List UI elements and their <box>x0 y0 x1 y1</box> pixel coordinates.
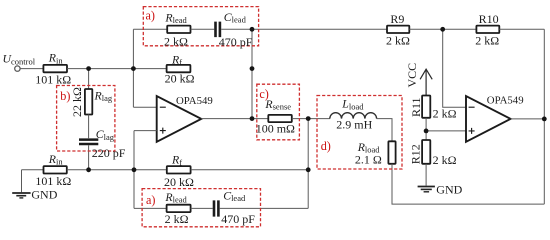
resistor Rlag body <box>85 89 92 115</box>
svg-text:2 kΩ: 2 kΩ <box>165 212 189 226</box>
capacitor Clag plates <box>79 140 98 144</box>
wire gnd to Rin2 <box>22 170 44 193</box>
resistor Rf2 body <box>167 166 191 173</box>
wire lower lead branch left <box>134 207 167 209</box>
resistor R9 body <box>387 26 409 33</box>
svg-text:2 kΩ: 2 kΩ <box>475 34 499 48</box>
power VCC arrow <box>425 70 427 96</box>
resistor Rsense body <box>268 115 292 122</box>
capacitor Clead (top) plates <box>216 22 220 37</box>
svg-text:R9: R9 <box>390 12 404 26</box>
wire opamp1 output <box>201 118 268 120</box>
resistor Rin (top) body <box>43 65 67 72</box>
wire R9 to R10 <box>409 28 476 30</box>
op-amp U1 plus pin mark <box>160 128 166 134</box>
op-amp U2 plus pin mark <box>469 128 475 134</box>
wire Clead to output leg (top) <box>221 28 252 30</box>
wire Lload to Rload <box>377 119 392 142</box>
wire terminal to Rin <box>20 68 43 70</box>
junction output top rail <box>250 27 255 32</box>
svg-text:b): b) <box>60 89 70 103</box>
input terminal circle <box>15 66 20 71</box>
svg-text:VCC: VCC <box>405 63 419 88</box>
svg-text:OPA549: OPA549 <box>176 95 213 107</box>
svg-text:101 kΩ: 101 kΩ <box>35 174 71 188</box>
svg-text:220 pF: 220 pF <box>92 146 126 160</box>
junction output Rf <box>250 66 255 71</box>
wire Clag to lower rail <box>88 145 90 170</box>
op-amp U1 OPA549 body <box>157 96 202 142</box>
inductor Lload humps <box>330 113 377 119</box>
wire Rlead2 to Clead2 <box>191 207 213 209</box>
junction opamp2 output node <box>542 117 547 122</box>
dashed box c) <box>257 84 300 140</box>
svg-text:22 kΩ: 22 kΩ <box>70 87 84 117</box>
op-amp U1 minus pin mark <box>160 106 166 108</box>
wire feedback left leg vertical <box>132 29 134 107</box>
wire to noninverting input opamp2 <box>426 130 466 132</box>
wire vertical lag leg <box>88 69 90 89</box>
wire noninverting input <box>134 130 157 132</box>
junction R11 R12 node <box>424 129 429 134</box>
wire Rin to inverting node <box>67 68 167 70</box>
wire R11 to R12 <box>425 118 427 140</box>
resistor Rlead2 body <box>167 205 191 212</box>
wire noninverting leg vertical <box>133 131 135 209</box>
svg-text:R10: R10 <box>479 12 499 26</box>
resistor Rin2 body <box>44 166 67 173</box>
junction Clag lower rail <box>86 167 91 172</box>
wire output vertical leg <box>251 29 253 118</box>
svg-text:OPA549: OPA549 <box>487 95 524 107</box>
svg-text:R12: R12 <box>409 144 423 164</box>
svg-text:2 kΩ: 2 kΩ <box>433 153 457 167</box>
svg-text:470 pF: 470 pF <box>221 212 255 226</box>
resistor R10 body <box>476 26 499 33</box>
svg-text:100 mΩ: 100 mΩ <box>256 122 295 136</box>
op-amp U2 OPA549 body <box>466 96 511 142</box>
junction sense node <box>306 116 311 121</box>
svg-text:GND: GND <box>31 187 57 201</box>
junction output node <box>250 116 255 121</box>
wire to inverting input <box>133 106 156 108</box>
resistor R11 body <box>422 96 430 118</box>
wire lead top left <box>133 28 167 30</box>
op-amp U2 minus pin mark <box>469 106 475 108</box>
wire lower rail <box>67 169 167 171</box>
ground GND1 bars <box>12 192 30 194</box>
wire Rlead to Clead (top) <box>191 28 215 30</box>
dashed box d) <box>317 96 402 170</box>
wire top rail to R9 <box>252 28 387 30</box>
dashed box b) <box>57 86 115 152</box>
resistor Rf (top) body <box>167 65 191 72</box>
svg-text:2 kΩ: 2 kΩ <box>164 34 188 48</box>
svg-text:a): a) <box>146 193 155 207</box>
svg-text:GND: GND <box>436 182 462 196</box>
wire opamp2 inverting leg <box>443 29 466 107</box>
resistor Rload body <box>388 141 395 164</box>
svg-text:2.9 mH: 2.9 mH <box>336 118 372 132</box>
svg-text:a): a) <box>146 9 155 23</box>
svg-text:2 kΩ: 2 kΩ <box>433 107 457 121</box>
svg-text:20 kΩ: 20 kΩ <box>164 175 194 189</box>
wire R12 to GND2 <box>425 164 427 186</box>
junction inverting node <box>131 66 136 71</box>
junction R9 R10 node <box>440 27 445 32</box>
dashed box a) bottom <box>142 189 260 227</box>
svg-text:R11: R11 <box>409 97 423 117</box>
wire Rf2 to sense leg <box>191 169 309 171</box>
wire Clead2 to sense leg <box>220 207 309 209</box>
wire Rlag to Clag <box>88 115 90 139</box>
resistor Rlead (top) body <box>167 26 190 33</box>
wire R10 to right edge <box>499 28 544 30</box>
svg-text:2.1 Ω: 2.1 Ω <box>355 152 382 166</box>
svg-text:d): d) <box>321 139 331 153</box>
junction sense lower rail <box>306 167 311 172</box>
junction lag node <box>86 66 91 71</box>
svg-text:101 kΩ: 101 kΩ <box>35 72 71 86</box>
wire sense node vertical <box>307 119 309 209</box>
wire Rsense to load <box>292 118 330 120</box>
wire Rload to bottom rail <box>392 164 544 204</box>
svg-text:470 pF: 470 pF <box>219 35 253 49</box>
wire opamp2 output <box>511 118 545 120</box>
ground GND2 bars <box>418 186 435 188</box>
dashed box a) top <box>143 7 258 46</box>
wire right edge vertical <box>543 29 545 204</box>
svg-text:2 kΩ: 2 kΩ <box>386 34 410 48</box>
junction noninverting lower rail <box>132 167 137 172</box>
capacitor Clead2 plates <box>214 200 218 216</box>
svg-text:20 kΩ: 20 kΩ <box>165 71 195 85</box>
resistor R12 body <box>422 140 430 164</box>
